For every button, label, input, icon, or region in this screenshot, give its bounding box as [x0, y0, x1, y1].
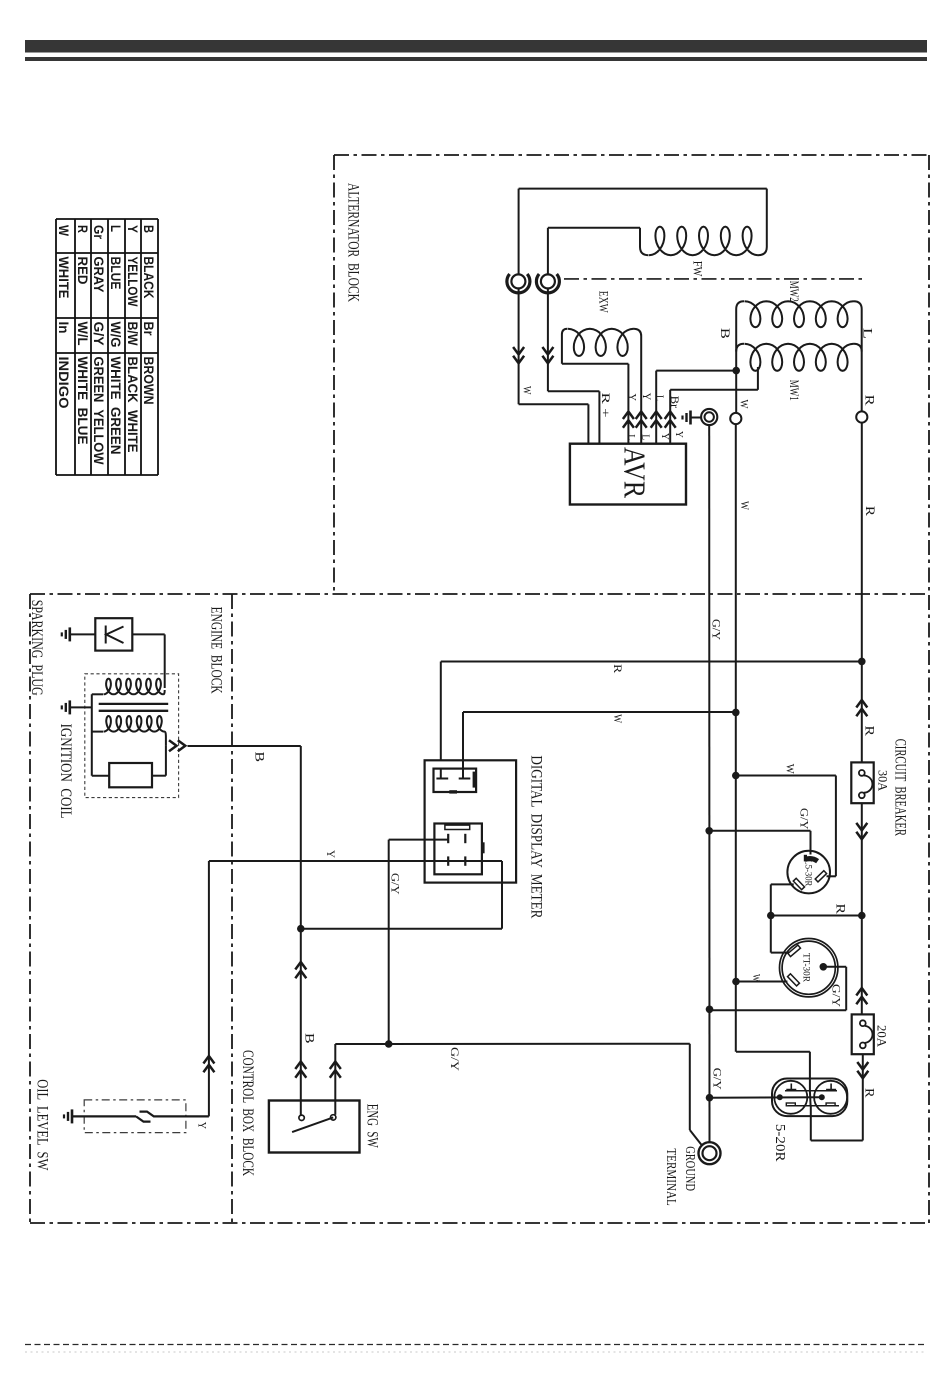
junction dot G/Y — [385, 1040, 393, 1048]
svg-text:CIRCUIT BREAKER: CIRCUIT BREAKER — [892, 739, 910, 836]
svg-text:Br: Br — [668, 396, 682, 409]
engine block / control box block top border — [30, 593, 929, 595]
svg-text:30A: 30A — [876, 770, 891, 792]
engine block left border — [29, 594, 31, 1223]
locking receptacle L5-30R — [787, 851, 830, 894]
ENG SW lever — [292, 1117, 333, 1132]
sparking plug ground — [69, 627, 72, 641]
svg-text:RED: RED — [75, 257, 90, 285]
svg-text:ENGINE BLOCK: ENGINE BLOCK — [208, 607, 226, 694]
wire R bus horizontal — [771, 915, 862, 917]
wire G/Y main vertical — [708, 425, 710, 1142]
svg-text:Y: Y — [196, 1122, 210, 1130]
terminal connector T1 (circle with cup) — [511, 274, 525, 288]
svg-text:Y: Y — [659, 433, 671, 440]
TT-30R slot neutral — [788, 974, 800, 986]
svg-text:AVR: AVR — [618, 447, 653, 498]
svg-text:L: L — [653, 395, 667, 401]
junction dot W-TT — [732, 978, 740, 986]
wire W to L5-30R outlet — [736, 775, 836, 777]
engine block / control box block divider — [231, 594, 233, 1223]
svg-text:W: W — [520, 386, 534, 395]
alternator ground symbol — [689, 411, 692, 425]
svg-text:G/Y: G/Y — [830, 984, 844, 1007]
junction dot R bus right — [858, 912, 866, 920]
svg-text:20A: 20A — [875, 1025, 890, 1048]
L5-30R slot W — [793, 878, 804, 889]
svg-text:R: R — [611, 664, 625, 673]
svg-text:IGNITION COIL: IGNITION COIL — [57, 724, 75, 819]
junction dot W-meter — [732, 709, 740, 717]
svg-text:B: B — [141, 225, 156, 233]
wire R main between breakers — [861, 916, 863, 1015]
ignition coil inner dashed box — [85, 674, 179, 798]
alternator block border (dash-dot box) — [334, 154, 929, 156]
svg-text:Y: Y — [324, 850, 338, 858]
svg-text:OIL LEVEL SW: OIL LEVEL SW — [34, 1079, 52, 1171]
svg-text:Y: Y — [640, 393, 654, 401]
alternator earth terminal (double circle) — [701, 409, 717, 425]
ignition coil core — [99, 703, 169, 705]
wire W into TT-30R — [736, 981, 787, 983]
wire W to display meter — [463, 711, 736, 713]
svg-text:R: R — [862, 726, 876, 737]
5-20R neutral bus — [785, 1090, 837, 1092]
svg-text:R: R — [833, 904, 847, 915]
svg-text:Y: Y — [673, 431, 685, 438]
digital display meter outline — [425, 760, 516, 882]
svg-text:FW: FW — [690, 261, 705, 277]
svg-text:WHITE BLUE: WHITE BLUE — [75, 357, 90, 445]
svg-text:WHITE GREEN: WHITE GREEN — [108, 357, 123, 455]
svg-text:INDIGO: INDIGO — [56, 357, 71, 409]
wire B branch to meter connector — [301, 928, 502, 930]
arrow G/Y at ENG SW — [330, 1062, 341, 1070]
5-20R ground pin left — [777, 1094, 783, 1100]
svg-text:Y: Y — [626, 394, 640, 402]
svg-text:SPARKING PLUG: SPARKING PLUG — [28, 600, 46, 696]
wire R to display meter — [441, 661, 862, 663]
5-20R neutral T slot right — [826, 1084, 836, 1090]
svg-text:GROUND: GROUND — [683, 1146, 698, 1191]
duplex receptacle 5-20R — [772, 1079, 847, 1117]
wire G/Y: meter to ENG SW / ground terminal — [389, 839, 449, 841]
5-20R neutral T slot left — [786, 1084, 796, 1090]
wire: MW2 tap to AVR (L) — [656, 370, 736, 372]
svg-text:BLACK: BLACK — [141, 257, 156, 299]
field winding coil FW — [640, 228, 649, 255]
svg-text:W: W — [750, 974, 762, 982]
main winding coil MW2 — [736, 301, 744, 309]
L5-30R ground slot (hook) — [805, 859, 817, 862]
svg-text:R: R — [75, 225, 90, 233]
svg-text:YELLOW: YELLOW — [125, 257, 140, 307]
svg-text:W: W — [738, 501, 752, 511]
wire W to 5-20R neutral — [736, 1051, 810, 1053]
svg-text:G/Y: G/Y — [711, 1068, 725, 1090]
svg-text:R: R — [863, 395, 877, 407]
wire: MW1 left end to AVR (Br) — [757, 367, 759, 390]
wire R from 20A to 5-20R — [862, 1054, 864, 1140]
oil level switch ground — [71, 1109, 74, 1123]
resistor (ignition kill) — [109, 763, 152, 787]
arrow R into breaker — [856, 700, 867, 708]
sparking plug gap symbol — [105, 626, 107, 644]
meter lower connector — [434, 824, 482, 875]
svg-text:L: L — [625, 434, 637, 440]
wire: T2 top to FW coil left end — [547, 228, 549, 275]
ENG SW contact right — [331, 1115, 336, 1120]
meter lower connector key mark — [481, 842, 484, 853]
arrow B at ENG SW — [295, 1062, 306, 1070]
junction dot R-meter — [858, 658, 866, 666]
circuit breaker 20A — [852, 1014, 874, 1054]
wire: ground to earth terminal circle — [691, 417, 702, 419]
page header thick rule — [25, 40, 927, 53]
circuit breaker 30A — [851, 762, 873, 803]
5-20R hot bus — [788, 1105, 839, 1107]
meter lower connector pins — [447, 834, 449, 843]
svg-text:CONTROL BOX BLOCK: CONTROL BOX BLOCK — [239, 1050, 257, 1176]
meter upper connector pin W — [462, 769, 464, 779]
engine switch ENG SW box — [269, 1101, 360, 1153]
svg-text:Gr: Gr — [91, 225, 106, 240]
svg-text:ENG SW: ENG SW — [363, 1104, 381, 1148]
ignition coil common lead — [91, 694, 93, 775]
svg-text:Y: Y — [125, 225, 140, 233]
svg-text:W: W — [738, 400, 752, 410]
engine block / control box block bottom border — [30, 1222, 929, 1224]
wire R from L5-30R to R bus — [771, 883, 794, 885]
terminal circle W — [730, 413, 741, 424]
svg-text:BROWN: BROWN — [141, 357, 156, 405]
junction dot R bus left — [767, 912, 775, 920]
svg-text:TERMINAL: TERMINAL — [664, 1148, 679, 1205]
wire: MW coils right leads down to R terminal — [861, 309, 863, 411]
svg-text:G/Y: G/Y — [710, 619, 724, 640]
ENG SW contact left — [299, 1115, 304, 1120]
main winding coil MW1 — [736, 344, 744, 352]
svg-text:B: B — [253, 752, 267, 763]
meter upper connector key marks — [473, 772, 476, 788]
svg-text:MW1: MW1 — [787, 380, 802, 401]
svg-text:L5-30R: L5-30R — [802, 860, 812, 887]
wire: T1 top to FW coil right end — [518, 189, 520, 275]
svg-text:R: R — [863, 1088, 877, 1098]
wire G/Y to L5-30R outlet — [709, 830, 810, 832]
wire R below 30A breaker — [861, 803, 863, 915]
meter lower connector top slot — [445, 825, 470, 829]
svg-text:MW2: MW2 — [787, 281, 802, 302]
wire R main vertical upper — [861, 423, 863, 763]
meter upper connector — [434, 769, 477, 792]
svg-text:GRAY: GRAY — [91, 257, 106, 293]
ignition coil ground — [69, 700, 72, 714]
oil level switch dashed box — [84, 1100, 186, 1133]
svg-text:B: B — [718, 328, 732, 339]
svg-text:W: W — [56, 225, 71, 236]
rotor-stator separator (dash-dot) — [564, 278, 863, 280]
wire: EXW right to AVR (Y) — [640, 336, 642, 444]
svg-text:ALTERNATOR BLOCK: ALTERNATOR BLOCK — [345, 183, 363, 302]
5-20R hot slot right — [826, 1103, 835, 1106]
svg-text:W: W — [611, 714, 625, 724]
oil level switch contact — [72, 1115, 136, 1117]
svg-text:G/Y: G/Y — [91, 322, 106, 346]
wire: MW2/MW1 left leads down to W terminal — [735, 309, 737, 413]
junction dot W-L5 outlet — [732, 772, 740, 780]
page header thin rule — [25, 57, 927, 61]
wire: T1 to AVR input W — [518, 288, 520, 404]
wire: EXW left to AVR (Y) — [627, 364, 629, 444]
wire color legend table grid — [56, 218, 158, 220]
travel trailer receptacle TT-30R — [780, 939, 838, 997]
ignition coil primary winding — [92, 693, 103, 695]
wire B: ignition to ENG SW and meter — [300, 746, 302, 1115]
svg-text:G/Y: G/Y — [388, 873, 402, 895]
wire G/Y from TT-30R pin to ground bus — [827, 966, 846, 968]
svg-text:W: W — [783, 764, 797, 775]
junction dot GY-TT — [706, 1006, 714, 1014]
5-20R ground pin right — [819, 1094, 825, 1100]
ground terminal (double circle) — [699, 1142, 721, 1164]
svg-text:B: B — [303, 1033, 317, 1044]
terminal circle R — [856, 411, 867, 422]
svg-text:G/Y: G/Y — [448, 1047, 462, 1071]
svg-text:In: In — [56, 322, 71, 334]
svg-text:GREEN YELLOW: GREEN YELLOW — [91, 357, 106, 465]
junction dot GY-L5 outlet — [705, 827, 713, 835]
junction dot B — [297, 925, 305, 933]
svg-text:L: L — [639, 434, 651, 440]
TT-30R ground pin — [820, 963, 828, 971]
automatic voltage regulator AVR — [570, 444, 686, 505]
wire: T2 to AVR input R+ — [547, 288, 549, 391]
arrow B mid — [295, 962, 306, 970]
svg-text:WHITE: WHITE — [56, 257, 71, 299]
wire: ignition coil output — [165, 736, 167, 746]
page footer dashed rule — [25, 1344, 927, 1346]
meter upper connector pin R — [440, 769, 442, 779]
svg-text:W/G: W/G — [108, 322, 123, 348]
svg-text:5-20R: 5-20R — [773, 1124, 788, 1162]
svg-text:L: L — [108, 225, 123, 232]
TT-30R slot hot — [788, 945, 801, 956]
svg-text:DIGITAL DISPLAY METER: DIGITAL DISPLAY METER — [528, 755, 546, 918]
ignition coil secondary winding — [92, 731, 103, 733]
5-20R hot slot left — [786, 1103, 795, 1106]
exciter winding coil EXW — [562, 363, 629, 365]
wire G/Y to ground terminal — [389, 1043, 690, 1045]
sparking plug body — [95, 618, 132, 650]
svg-text:G/Y: G/Y — [798, 808, 812, 830]
svg-text:EXW: EXW — [596, 291, 611, 314]
svg-text:W/L: W/L — [75, 322, 90, 346]
L5-30R slot X — [815, 871, 826, 882]
junction dot GY-520R — [706, 1094, 714, 1102]
5-20R ground bus (G/Y) — [710, 1096, 822, 1098]
wire W main vertical — [735, 424, 737, 1052]
wire: sparking plug to ignition coil secondary — [132, 633, 164, 635]
svg-text:BLACK WHITE: BLACK WHITE — [125, 357, 140, 453]
svg-text:TT-30R: TT-30R — [800, 953, 810, 983]
junction dot MW2-tap — [732, 367, 740, 375]
svg-text:R: R — [863, 506, 877, 517]
svg-text:R +: R + — [599, 393, 613, 418]
svg-text:Br: Br — [141, 322, 156, 337]
svg-text:B/W: B/W — [125, 322, 140, 346]
wire G/Y diagonal into ground terminal — [690, 1130, 703, 1146]
svg-text:BLUE: BLUE — [108, 257, 123, 290]
terminal connector T2 (circle with cup) — [541, 274, 555, 288]
wire R into TT-30R — [771, 952, 790, 954]
wire Y: oil switch to meter — [208, 861, 210, 1116]
